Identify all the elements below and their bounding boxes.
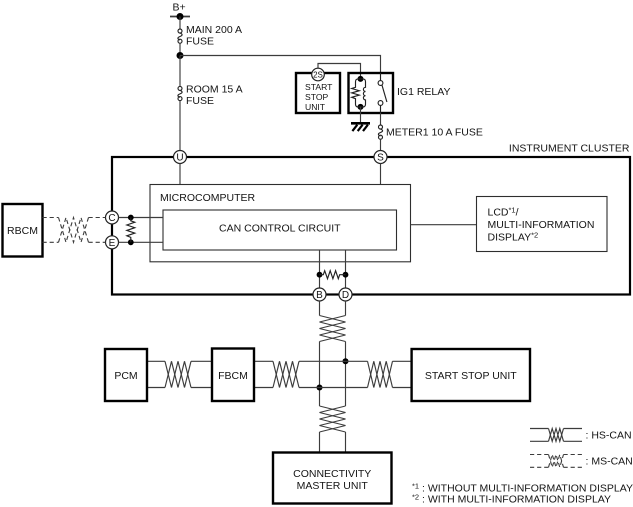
svg-text:CAN CONTROL CIRCUIT: CAN CONTROL CIRCUIT bbox=[219, 222, 341, 234]
box START STOP UNIT (bottom) bbox=[412, 349, 530, 401]
wire bbox=[191, 360, 212, 362]
wire METER1 fuse to pin S bbox=[380, 139, 382, 150]
svg-text:UNIT: UNIT bbox=[305, 102, 326, 112]
wire pin U to microcomputer bbox=[179, 163, 181, 184]
svg-text:D: D bbox=[342, 290, 349, 301]
ground bbox=[351, 123, 370, 131]
svg-text:B+: B+ bbox=[173, 2, 186, 14]
terminating resistor (B-D) bbox=[317, 271, 349, 279]
svg-text:U: U bbox=[176, 153, 183, 164]
svg-text:RBCM: RBCM bbox=[7, 225, 38, 237]
twisted pair MS-CAN (RBCM to cluster) bbox=[43, 218, 106, 243]
wire pin D down bbox=[345, 301, 347, 316]
svg-text:STOP: STOP bbox=[305, 92, 329, 102]
box RBCM bbox=[3, 204, 43, 257]
wire braid to CMU bbox=[319, 432, 321, 453]
wire 2S to relay coil bbox=[318, 64, 361, 78]
svg-text:ROOM 15 A: ROOM 15 A bbox=[186, 83, 243, 95]
LCD / multi-information display box bbox=[477, 197, 608, 252]
svg-text:B: B bbox=[316, 290, 323, 301]
svg-text:DISPLAY*2: DISPLAY*2 bbox=[488, 231, 539, 244]
box START STOP UNIT (top) bbox=[296, 73, 340, 113]
svg-text:: MS-CAN: : MS-CAN bbox=[586, 456, 633, 468]
box CONNECTIVITY MASTER UNIT bbox=[273, 453, 392, 504]
fuse ROOM 15 A bbox=[178, 83, 243, 107]
wire junction to ROOM fuse bbox=[179, 56, 181, 87]
svg-text:METER1 10 A FUSE: METER1 10 A FUSE bbox=[386, 127, 483, 139]
wire ROOM fuse to pin U bbox=[179, 101, 181, 151]
junction dot B to bus bottom line bbox=[317, 385, 323, 391]
svg-text:IG1 RELAY: IG1 RELAY bbox=[397, 86, 451, 98]
wire bbox=[299, 360, 368, 362]
wire microcomputer to LCD bbox=[411, 224, 477, 226]
legend MS-CAN symbol bbox=[530, 455, 633, 468]
wire CAN circuit to pin B bbox=[319, 250, 321, 288]
junction dot bbox=[177, 52, 184, 59]
svg-text:2S: 2S bbox=[313, 70, 323, 79]
terminating resistor (C-E) bbox=[127, 215, 135, 246]
pin S bbox=[374, 151, 387, 164]
svg-text:MULTI-INFORMATION: MULTI-INFORMATION bbox=[488, 219, 595, 231]
box FBCM bbox=[212, 349, 254, 402]
connector 2S bbox=[312, 68, 325, 81]
svg-text:: HS-CAN: : HS-CAN bbox=[586, 430, 632, 442]
node B+ bbox=[170, 2, 190, 21]
wire pin S to microcomputer bbox=[380, 163, 382, 184]
twisted pair HS-CAN (PCM-FBCM) bbox=[165, 361, 191, 387]
wire bus FBCM-junction bbox=[254, 360, 273, 362]
wire MAIN fuse to junction bbox=[179, 43, 181, 55]
wire bus PCM-FBCM bbox=[147, 360, 165, 362]
svg-text:INSTRUMENT CLUSTER: INSTRUMENT CLUSTER bbox=[509, 143, 630, 155]
svg-text:FBCM: FBCM bbox=[218, 370, 248, 382]
wire B+ to MAIN fuse bbox=[179, 17, 181, 30]
svg-text:START STOP UNIT: START STOP UNIT bbox=[425, 370, 517, 382]
relay coil: resistor + inductor in parallel bbox=[352, 76, 366, 110]
svg-text:START: START bbox=[305, 82, 333, 92]
relay IG1 box bbox=[349, 73, 394, 113]
junction dot D to bus top line bbox=[343, 358, 349, 364]
svg-text:MASTER UNIT: MASTER UNIT bbox=[297, 480, 369, 492]
svg-text:MAIN 200 A: MAIN 200 A bbox=[186, 24, 242, 36]
twisted pair HS-CAN (bus to connectivity master unit) bbox=[320, 406, 346, 432]
pin U bbox=[174, 151, 187, 164]
wire bbox=[393, 360, 412, 362]
wire CAN circuit to pin D bbox=[345, 250, 347, 288]
svg-text:E: E bbox=[109, 238, 116, 249]
svg-text:FUSE: FUSE bbox=[186, 36, 214, 48]
CAN control circuit box bbox=[163, 210, 397, 250]
pin B bbox=[313, 288, 326, 301]
svg-text:PCM: PCM bbox=[114, 370, 137, 382]
box PCM bbox=[105, 349, 147, 401]
fuse METER1 10 A bbox=[378, 125, 482, 139]
wire to bus junctions bbox=[319, 342, 321, 407]
legend HS-CAN symbol bbox=[530, 429, 632, 442]
pin D bbox=[339, 288, 352, 301]
svg-text:MICROCOMPUTER: MICROCOMPUTER bbox=[160, 192, 255, 204]
twisted pair HS-CAN (cluster to bus) bbox=[320, 316, 346, 342]
twisted pair HS-CAN (FBCM-junction) bbox=[273, 361, 299, 387]
wire pin E to CAN circuit bbox=[118, 241, 163, 243]
pin C bbox=[106, 211, 119, 224]
svg-text:FUSE: FUSE bbox=[186, 95, 214, 107]
wire relay switch to METER1 fuse bbox=[380, 113, 382, 125]
pin E bbox=[106, 236, 119, 249]
microcomputer box bbox=[150, 185, 411, 262]
twisted pair HS-CAN (junction-start stop unit) bbox=[368, 361, 393, 387]
svg-text:S: S bbox=[377, 153, 384, 164]
svg-text:C: C bbox=[108, 213, 115, 224]
relay switch contact bbox=[378, 73, 387, 113]
wire pin C to CAN circuit bbox=[118, 217, 163, 219]
wire relay coil to ground bbox=[360, 107, 362, 124]
svg-text:CONNECTIVITY: CONNECTIVITY bbox=[293, 468, 371, 480]
svg-text:*2 : WITH MULTI-INFORMATION DI: *2 : WITH MULTI-INFORMATION DISPLAY bbox=[412, 492, 611, 505]
wire pin B down bbox=[319, 301, 321, 316]
fuse MAIN 200 A bbox=[178, 24, 242, 48]
wire junction to IG1 relay switch bbox=[180, 56, 381, 74]
